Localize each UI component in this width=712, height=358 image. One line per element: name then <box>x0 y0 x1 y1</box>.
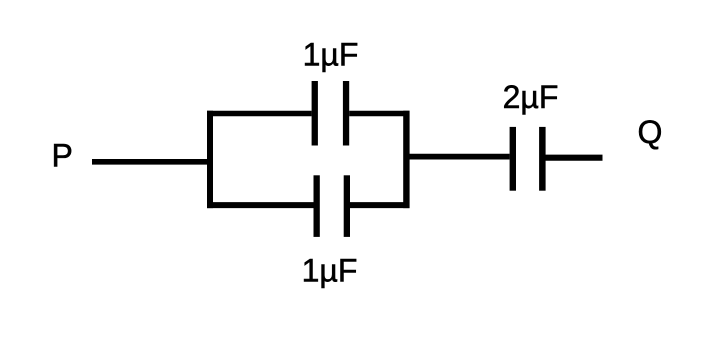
label C3 value 2uF <box>503 79 559 115</box>
wire right vertical of parallel loop <box>403 111 409 208</box>
wire C3 to Q <box>545 155 602 161</box>
node Q <box>638 114 663 150</box>
label C2 value 1uF <box>302 253 358 289</box>
svg-text:P: P <box>52 137 73 173</box>
svg-text:Q: Q <box>638 114 663 150</box>
svg-text:2µF: 2µF <box>503 79 559 115</box>
capacitor C2 bottom 1uF <box>314 175 351 237</box>
node P <box>52 137 73 173</box>
label C1 value 1uF <box>303 37 359 73</box>
wire top-left segment <box>207 111 312 117</box>
capacitor C1 top 1uF <box>312 81 350 146</box>
wire P to parallel section <box>92 159 212 165</box>
wire left vertical of parallel loop <box>207 111 213 208</box>
svg-text:1µF: 1µF <box>302 253 358 289</box>
wire bottom-left segment <box>207 202 314 208</box>
svg-text:1µF: 1µF <box>303 37 359 73</box>
wire top-right segment <box>349 111 409 117</box>
capacitor C3 2uF <box>510 127 546 191</box>
wire bottom-right segment <box>350 202 410 208</box>
wire middle to C3 <box>404 154 510 160</box>
